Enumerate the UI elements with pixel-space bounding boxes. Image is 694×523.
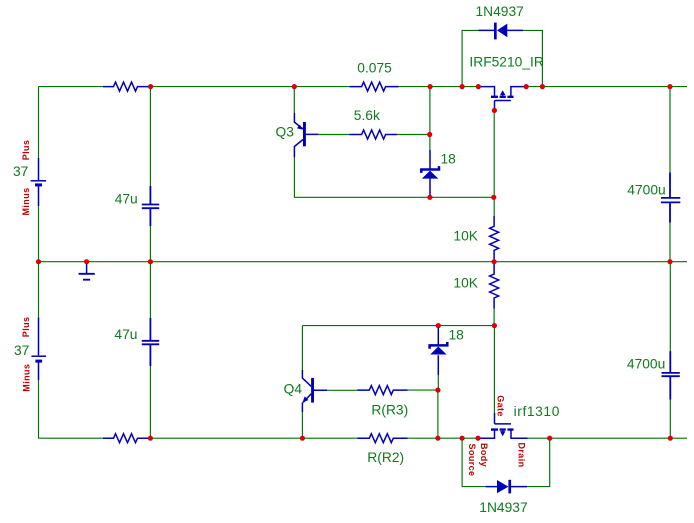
svg-text:4700u: 4700u — [627, 183, 665, 198]
resistor R-top-left — [103, 82, 151, 91]
svg-text:37: 37 — [13, 164, 28, 179]
junction T1 gate — [492, 108, 497, 113]
wire diode D2 loop — [462, 438, 550, 486]
wire gate of T1 down to node — [493, 110, 495, 215]
svg-text:Plus: Plus — [21, 140, 31, 161]
junction bottom rail / T2 source — [475, 436, 480, 441]
wire middle rail (ground net) — [38, 261, 687, 263]
svg-text:Drain: Drain — [516, 442, 526, 467]
capacitor C2 47u — [142, 318, 159, 366]
resistor R-bottom-left — [103, 434, 150, 443]
junction bottom rail / Q4 emitter — [300, 436, 305, 441]
svg-text:10K: 10K — [453, 229, 478, 244]
wire capacitor C1 branch — [149, 87, 151, 262]
resistor 5.6k — [350, 130, 398, 139]
svg-text:47u: 47u — [114, 327, 137, 342]
wire capacitor C2 branch — [149, 262, 151, 439]
resistor 0.075 — [350, 82, 399, 91]
capacitor C3 4700u — [661, 172, 680, 222]
junction top rail / C1 — [148, 84, 153, 89]
svg-text:18: 18 — [449, 328, 465, 343]
wire 10K lower to node — [493, 309, 495, 326]
junction Q4 collector node / gate wire — [492, 323, 497, 328]
svg-text:37: 37 — [14, 343, 29, 358]
junction collector node / gate wire — [491, 195, 496, 200]
mosfet T1 IRF5210 (PMOS) — [478, 87, 526, 111]
svg-text:Minus: Minus — [21, 188, 31, 216]
junction middle rail left end — [36, 259, 41, 264]
zener diode D3 (18V) — [421, 150, 439, 198]
svg-text:Source: Source — [467, 444, 477, 477]
wire left vertical branch — [38, 87, 40, 439]
junction top rail / right branch — [667, 84, 672, 89]
junction zener D3 / collector node — [427, 195, 432, 200]
svg-text:10K: 10K — [453, 275, 478, 290]
wire Q3 emitter stub — [293, 87, 295, 113]
junction middle rail / C branch — [148, 259, 153, 264]
resistor R(R2) — [357, 434, 408, 443]
wire Q3 base to resistor 5.6k — [318, 134, 429, 136]
junction middle rail / 10K divider — [492, 259, 497, 264]
svg-text:Gate: Gate — [496, 395, 506, 417]
svg-text:irf1310: irf1310 — [514, 404, 560, 419]
wire R(R3) junction down to bottom rail — [437, 390, 439, 438]
svg-text:Minus: Minus — [21, 364, 31, 392]
wire right vertical branch — [669, 87, 671, 439]
svg-text:47u: 47u — [115, 191, 138, 206]
junction top rail / D1 right — [540, 84, 545, 89]
junction bottom rail / D2 right — [547, 436, 552, 441]
svg-text:R(R3): R(R3) — [371, 402, 408, 417]
junction top rail / zener D3 — [428, 84, 433, 89]
diode D1 1N4937 (top) — [479, 23, 524, 40]
junction zener D4 / R(R3) — [435, 388, 440, 393]
junction top rail / T1 drain — [524, 84, 529, 89]
wire bottom rail — [38, 437, 687, 439]
svg-text:4700u: 4700u — [627, 357, 665, 372]
svg-text:18: 18 — [441, 152, 457, 167]
transistor Q3 (PNP) — [294, 113, 318, 157]
resistor R(R3) — [357, 386, 408, 395]
zener diode D4 (18V) — [430, 328, 448, 375]
junction bottom rail / C2 branch — [148, 436, 153, 441]
junction Q4 collector node / zener D4 — [436, 323, 441, 328]
wire Q4 emitter stub — [301, 412, 303, 438]
battery V1 — [31, 158, 46, 206]
battery V2 — [31, 317, 46, 380]
svg-text:5.6k: 5.6k — [354, 108, 380, 123]
junction middle rail / right branch — [667, 259, 672, 264]
svg-text:Body: Body — [479, 443, 489, 467]
junction top rail / D1 left — [460, 84, 465, 89]
wire Q4 collector node — [302, 326, 494, 370]
junction bottom rail / D2 left — [460, 436, 465, 441]
wire zener D4 to R(R3) junction — [437, 375, 439, 390]
junction bottom rail / right branch — [668, 436, 673, 441]
ground symbol — [79, 264, 95, 280]
resistor 10K lower — [490, 262, 499, 309]
JUNCTION DOTS (red) — [36, 84, 673, 441]
wire Q3 collector node — [294, 157, 493, 197]
svg-text:1N4937: 1N4937 — [476, 4, 524, 19]
svg-text:Q3: Q3 — [276, 125, 295, 140]
svg-text:0.075: 0.075 — [357, 60, 392, 75]
junction top rail / Q3 emitter — [292, 84, 297, 89]
svg-text:R(R2): R(R2) — [367, 450, 404, 465]
capacitor C1 47u — [142, 186, 159, 226]
svg-text:IRF5210_IR: IRF5210_IR — [469, 55, 543, 70]
wire Q4 base to R(R3) — [327, 389, 438, 391]
svg-text:1N4937: 1N4937 — [479, 500, 527, 515]
svg-text:Plus: Plus — [21, 317, 31, 338]
wire top rail — [38, 86, 687, 88]
transistor Q4 (NPN) — [302, 370, 327, 412]
wire node to gate of T2 — [493, 326, 495, 413]
svg-text:Q4: Q4 — [284, 381, 303, 396]
capacitor C4 4700u — [662, 351, 680, 400]
wire diode D1 loop — [462, 30, 542, 86]
diode D2 1N4937 (bottom) — [486, 480, 527, 494]
junction middle rail / ground — [84, 259, 89, 264]
wire zener D3 branch — [429, 87, 431, 150]
junction top rail / T1 source — [476, 84, 481, 89]
junction 5.6k / zener branch — [427, 132, 432, 137]
mosfet T2 irf1310 (NMOS) — [478, 413, 528, 438]
junction bottom rail / R(R3) branch — [435, 436, 440, 441]
resistor 10K upper — [490, 216, 499, 262]
